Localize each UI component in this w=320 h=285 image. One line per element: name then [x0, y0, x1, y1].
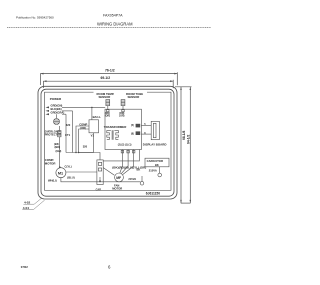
- capacitor box: [145, 158, 169, 167]
- svg-text:MF: MF: [116, 176, 121, 180]
- junction dot comp column: [75, 152, 76, 153]
- svg-text:PROTECTOR: PROTECTOR: [45, 132, 61, 136]
- unit outline outer rounded rect: [38, 86, 177, 199]
- callout 4-04: [22, 200, 44, 210]
- svg-text:215VA: 215VA: [128, 177, 136, 181]
- dimension line 69-1/2 (top inner): [44, 80, 174, 88]
- svg-text:4-04: 4-04: [23, 206, 29, 210]
- svg-text:SENSOR: SENSOR: [128, 95, 140, 99]
- svg-text:64-1/2: 64-1/2: [187, 134, 191, 144]
- svg-text:POWER: POWER: [50, 97, 62, 101]
- svg-text:BLK(BK): BLK(BK): [51, 107, 62, 111]
- svg-text:WIRING DIAGRAM: WIRING DIAGRAM: [97, 21, 133, 26]
- dimension line 76-1/2 (top outer): [41, 72, 178, 85]
- svg-text:6J611150: 6J611150: [146, 192, 160, 196]
- svg-text:MOTOR: MOTOR: [45, 162, 57, 166]
- svg-text:C(YL): C(YL): [65, 164, 72, 168]
- svg-text:(8): (8): [131, 133, 134, 136]
- comp motor M1: [56, 168, 66, 178]
- display board connector box: [151, 121, 159, 139]
- board right edge pin 2: [136, 124, 141, 128]
- room tube sensor symbol: [121, 100, 125, 112]
- wire junction row into terminal block: [79, 153, 101, 160]
- svg-text:M1: M1: [58, 171, 63, 175]
- board bottom connector stubs: [121, 150, 135, 154]
- wire GRD(GRA): [46, 111, 67, 116]
- svg-text:320: 320: [66, 123, 71, 127]
- room temp sensor symbol: [106, 100, 110, 112]
- wire relay left pin b: [79, 129, 89, 153]
- svg-text:4-02: 4-02: [24, 200, 30, 204]
- wire power feed down to relay V1: [91, 107, 93, 119]
- svg-text:V1: V1: [91, 133, 95, 137]
- svg-text:BAC-L: BAC-L: [93, 115, 102, 119]
- svg-text:320: 320: [83, 144, 88, 148]
- wire BLK(BK): [46, 107, 73, 112]
- svg-text:(OR): (OR): [119, 115, 124, 118]
- svg-text:CT1: CT1: [65, 133, 71, 137]
- wire vertical from BLK row: [72, 111, 74, 153]
- svg-text:TRANSFORMER: TRANSFORMER: [104, 125, 127, 129]
- wire relay V1 down: [93, 133, 95, 153]
- schematic border rect: [45, 92, 172, 190]
- overload protector component: [58, 126, 61, 137]
- wire overload to comp motor: [58, 137, 60, 168]
- header rule: [7, 27, 211, 29]
- wire comp motor to capacitor terminal: [61, 178, 140, 182]
- svg-text:MOTOR: MOTOR: [112, 187, 122, 191]
- svg-text:DISPLAY BOARD: DISPLAY BOARD: [143, 142, 167, 146]
- wire comp motor right to terminal block: [66, 171, 97, 173]
- svg-text:SENSOR: SENSOR: [99, 95, 111, 99]
- callout 4-02: [24, 198, 43, 205]
- svg-text:FAX054P7A: FAX054P7A: [103, 13, 123, 17]
- transformer symbol: [107, 130, 119, 140]
- wire vertical from GRD row: [65, 114, 67, 152]
- svg-text:(5): (5): [131, 124, 134, 127]
- svg-text:GRD(GN): GRD(GN): [51, 104, 63, 108]
- wire terminal block to capacitor column: [103, 159, 139, 162]
- svg-text:(BLU): (BLU): [67, 176, 74, 180]
- svg-text:CAP.: CAP.: [96, 188, 102, 191]
- junction dot at comp motor top: [59, 167, 60, 168]
- svg-text:69-1/2: 69-1/2: [101, 76, 111, 80]
- junction dot comp column b: [78, 152, 79, 153]
- svg-text:(2) (2) (1) (1): (2) (2) (1) (1): [118, 143, 132, 146]
- wire relay left pin a: [76, 126, 89, 153]
- svg-text:215VA: 215VA: [149, 169, 157, 173]
- wire board right-bottom to capacitor terminal: [138, 150, 140, 161]
- svg-text:(OR): (OR): [105, 115, 110, 118]
- main control board box: [105, 109, 141, 149]
- fan feed wires: [103, 154, 134, 176]
- svg-text:BK: BK: [137, 167, 141, 171]
- svg-text:(GN): (GN): [56, 149, 62, 153]
- svg-text:Publication No. 5995427560: Publication No. 5995427560: [16, 16, 54, 20]
- power plug ground symbol: [54, 114, 60, 124]
- wire board to display pin 5: [131, 123, 151, 127]
- svg-text:CAPACITOR: CAPACITOR: [147, 159, 163, 163]
- junction at power feed to relay: [91, 107, 92, 108]
- wire GRD(GN): [46, 104, 106, 109]
- svg-text:07/02: 07/02: [21, 265, 28, 269]
- fan motor symbol: [115, 173, 124, 182]
- wire across bottom of relay area: [66, 152, 94, 154]
- svg-text:WH(LI): WH(LI): [48, 178, 57, 182]
- relay V1 box: [89, 120, 99, 133]
- svg-text:68-1/8: 68-1/8: [182, 130, 186, 140]
- svg-text:BK: BK: [155, 163, 159, 167]
- board right edge pin 5: [136, 131, 141, 135]
- svg-text:76-1/2: 76-1/2: [105, 69, 115, 73]
- comp wire terminal: [140, 176, 144, 185]
- dimension lines right side (68-1/8 / 64-1/2): [175, 87, 192, 203]
- terminal block: [97, 160, 103, 185]
- unit outline inner rounded rect: [41, 89, 174, 196]
- wire board to display pin 8: [131, 132, 151, 136]
- capacitor terminal: [158, 167, 162, 177]
